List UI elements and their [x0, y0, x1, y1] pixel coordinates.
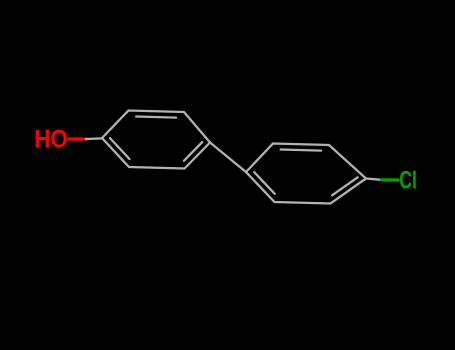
benzene ring 2 (chlorophenyl ring): [246, 144, 366, 204]
C-Cl bond green half: [382, 178, 399, 181]
ring1 double bond inner line top: [136, 117, 176, 118]
ring2 double bond inner line top: [281, 150, 321, 151]
hydroxyl O-C1 bond gray half: [86, 137, 102, 140]
svg-text:HO: HO: [34, 124, 68, 153]
C-Cl bond gray half: [366, 179, 382, 180]
ring1 double bond inner line right-lower: [184, 142, 202, 161]
ring2 double bond inner line left-lower: [254, 172, 275, 194]
ring2 double bond inner line right-lower: [332, 177, 358, 195]
ring1 double bond inner line left-lower: [110, 138, 130, 159]
hydroxyl O-C1 bond red half: [70, 137, 87, 140]
biphenyl C-C single bond: [210, 143, 246, 173]
svg-text:Cl: Cl: [399, 166, 417, 194]
benzene ring 1 (phenol ring): [102, 111, 210, 169]
